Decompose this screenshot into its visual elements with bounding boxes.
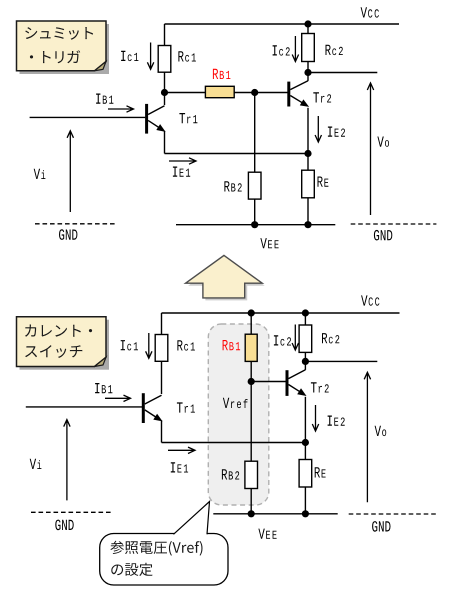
label RE (bottom) xyxy=(315,467,326,477)
resistor Rc1 (bottom) xyxy=(155,335,168,362)
wire VCC to Rc1 xyxy=(164,24,166,46)
wire output (top) xyxy=(308,72,377,74)
callout text line2: の設定 xyxy=(111,563,152,576)
wire node B down to RB2 xyxy=(254,93,256,173)
label RB1 (top, red) xyxy=(213,69,231,79)
signal arrow Vo (top) xyxy=(367,83,373,215)
current arrow IE1 (top) xyxy=(169,158,196,164)
junction Tr2 collector node (bottom) xyxy=(302,358,309,365)
resistor RE (bottom) xyxy=(299,460,312,488)
label Tr2 (bottom) xyxy=(311,382,329,392)
junction node B: Tr2 base node (top) xyxy=(251,89,258,96)
net label VEE (top) xyxy=(260,238,278,248)
wire RB2 to VEE rail xyxy=(254,199,256,225)
note text line1: カレント・ xyxy=(25,325,92,337)
junction emitter node (bottom) xyxy=(302,439,309,446)
wire Vref node down to RB2 (bottom) xyxy=(250,382,252,462)
wire emitter node down to RE (bottom) xyxy=(304,443,306,460)
wire emitter rail (bottom) xyxy=(162,442,306,444)
wire Rc1 to node A xyxy=(164,72,166,92)
label Ic2 (bottom) xyxy=(274,335,291,345)
wire VCC to Rc2 xyxy=(307,24,309,34)
wire node B to Tr2 base xyxy=(255,92,288,94)
current arrow Ic1 (top) xyxy=(147,43,153,70)
label Rc1 (top) xyxy=(178,51,196,61)
wire VCC rail (top circuit) xyxy=(165,23,400,25)
wire Tr2 emitter vertical xyxy=(307,108,309,154)
note text line1: シュミット xyxy=(25,27,93,40)
transistor Tr1 (bottom) xyxy=(143,393,162,423)
ground GND dashed (top left) xyxy=(35,223,115,225)
wire VCC to RB1 (bottom) xyxy=(250,313,252,334)
label Tr1 (top) xyxy=(179,113,197,123)
label Vref (bottom) xyxy=(223,398,248,408)
label Ic1 (top) xyxy=(121,51,138,61)
transistor Tr2 (bottom) xyxy=(287,370,307,396)
label GND (top left) xyxy=(59,229,77,240)
callout text line1: 参照電圧(Vref) xyxy=(110,541,202,556)
wire Tr2 emitter vertical (bottom) xyxy=(304,397,306,443)
junction RE-VEE (bottom) xyxy=(302,510,309,517)
junction node A: Tr1 collector (top) xyxy=(161,89,168,96)
highlight region: Vref divider (gray dashed rounded box) xyxy=(208,324,268,505)
wire Tr1 emitter vertical xyxy=(164,131,166,154)
label IB1 (bottom) xyxy=(95,383,112,393)
label Ic2 (top) xyxy=(273,45,290,55)
label RB2 (top) xyxy=(224,181,241,191)
wire RE to VEE rail xyxy=(307,198,309,225)
resistor RB2 (bottom) xyxy=(245,461,258,488)
resistor RE (top) xyxy=(302,170,315,198)
wire input to Tr1 base (top) xyxy=(30,116,146,118)
junction VCC-Rc2 (bottom) xyxy=(302,309,309,316)
label RB1 (bottom, red) xyxy=(223,340,241,350)
wire Tr1 collector vertical xyxy=(164,93,166,106)
label GND (bottom left) xyxy=(55,520,73,531)
ground GND dashed (top right) xyxy=(351,223,437,225)
resistor RB1 (top, horizontal, highlighted) xyxy=(205,86,234,97)
ground GND dashed (bottom right) xyxy=(349,513,436,515)
wire Tr1 emitter vertical (bottom) xyxy=(161,420,163,442)
junction RE-VEE (top) xyxy=(304,221,311,228)
wire node A to RB1 xyxy=(165,92,206,94)
label IB1 (top) xyxy=(96,94,113,104)
junction emitter node (top) xyxy=(304,150,311,157)
label GND (top right) xyxy=(374,230,392,241)
resistor Rc2 (bottom) xyxy=(299,325,312,352)
label GND (bottom right) xyxy=(372,521,390,532)
wire Vref node to Tr2 base (bottom) xyxy=(251,381,286,383)
label IE1 (top) xyxy=(173,167,190,177)
label Vi (bottom) xyxy=(30,459,42,469)
wire VCC to Rc2 (bottom) xyxy=(304,313,306,325)
label Vi (top) xyxy=(34,169,46,179)
label Ic1 (bottom) xyxy=(121,340,138,350)
current arrow IB1 (bottom) xyxy=(105,395,131,401)
current arrow IB1 (top) xyxy=(108,106,134,112)
resistor RB1 (bottom, vertical, highlighted) xyxy=(245,334,257,361)
wire RB1 to Vref node xyxy=(250,361,252,381)
label Tr2 (top) xyxy=(313,92,331,102)
junction node C: Tr2 collector (top) xyxy=(304,69,311,76)
signal arrow Vi (top) xyxy=(67,131,73,212)
current arrow IE2 (top) xyxy=(315,116,321,142)
resistor Rc1 (top) xyxy=(158,46,171,73)
junction Vref node (bottom) xyxy=(248,378,255,385)
wire Rc2 to Tr2 collector xyxy=(307,62,309,81)
wire VCC rail (bottom circuit) xyxy=(162,312,400,314)
wire input to Tr1 base (bottom) xyxy=(26,406,142,408)
wire Rc2 to Tr2 collector (bottom) xyxy=(304,352,306,370)
transistor Tr2 (top) xyxy=(289,81,309,107)
junction RB2-VEE (bottom) xyxy=(248,510,255,517)
label IE1 (bottom) xyxy=(171,462,188,472)
wire output (bottom) xyxy=(305,360,377,362)
label IE2 (bottom) xyxy=(328,416,345,426)
callout bubble: Vref setting xyxy=(100,502,228,586)
current arrow Ic2 (bottom) xyxy=(292,325,298,351)
wire RB1 to node B xyxy=(234,92,255,94)
note text line2: ・トリガ xyxy=(30,50,80,63)
note text line2: スイッチ xyxy=(25,345,82,358)
wire VEE rail (top) xyxy=(176,224,335,226)
resistor Rc2 (top) xyxy=(302,34,315,62)
sticky note: Schmitt trigger label box xyxy=(17,21,110,74)
sticky note: current switch label box xyxy=(17,317,110,370)
wire VCC to Rc1 (bottom) xyxy=(161,313,163,335)
label Rc2 (bottom) xyxy=(322,333,339,343)
wire emitter rail (top) xyxy=(165,153,309,155)
net label VEE (bottom) xyxy=(258,529,276,539)
label Vo (top) xyxy=(377,137,389,147)
current arrow IE1 (bottom) xyxy=(168,447,195,453)
resistor RB2 (top) xyxy=(248,172,261,199)
signal arrow Vi (bottom) xyxy=(64,420,70,501)
wire RE to VEE rail (bottom) xyxy=(304,487,306,514)
label Rc2 (top) xyxy=(326,45,343,55)
transistor Tr1 (top) xyxy=(147,104,166,134)
net label VCC (bottom) xyxy=(361,295,379,305)
junction VCC-Rc2 (top) xyxy=(304,20,311,27)
wire Rc1 to Tr1 collector (bottom) xyxy=(161,361,163,394)
big up block arrow between circuits xyxy=(186,255,265,300)
current arrow IE2 (bottom) xyxy=(312,405,318,431)
label Tr1 (bottom) xyxy=(177,402,195,412)
wire VEE rail (bottom) xyxy=(213,513,337,515)
label Rc1 (bottom) xyxy=(177,340,195,350)
current arrow Ic2 (top) xyxy=(292,36,298,62)
label RE (top) xyxy=(318,177,329,187)
label IE2 (top) xyxy=(328,127,345,137)
signal arrow Vo (bottom) xyxy=(364,372,370,502)
current arrow Ic1 (bottom) xyxy=(146,333,152,358)
label RB2 (bottom) xyxy=(222,469,239,479)
wire RB2 to VEE rail (bottom) xyxy=(250,489,252,514)
wire emitter node down to RE xyxy=(307,154,309,171)
junction RB2-VEE (top) xyxy=(251,221,258,228)
junction VCC-RB1 (bottom) xyxy=(248,309,255,316)
label Vo (bottom) xyxy=(375,426,387,436)
net label VCC (top) xyxy=(361,7,379,17)
ground GND dashed (bottom left) xyxy=(31,511,112,513)
